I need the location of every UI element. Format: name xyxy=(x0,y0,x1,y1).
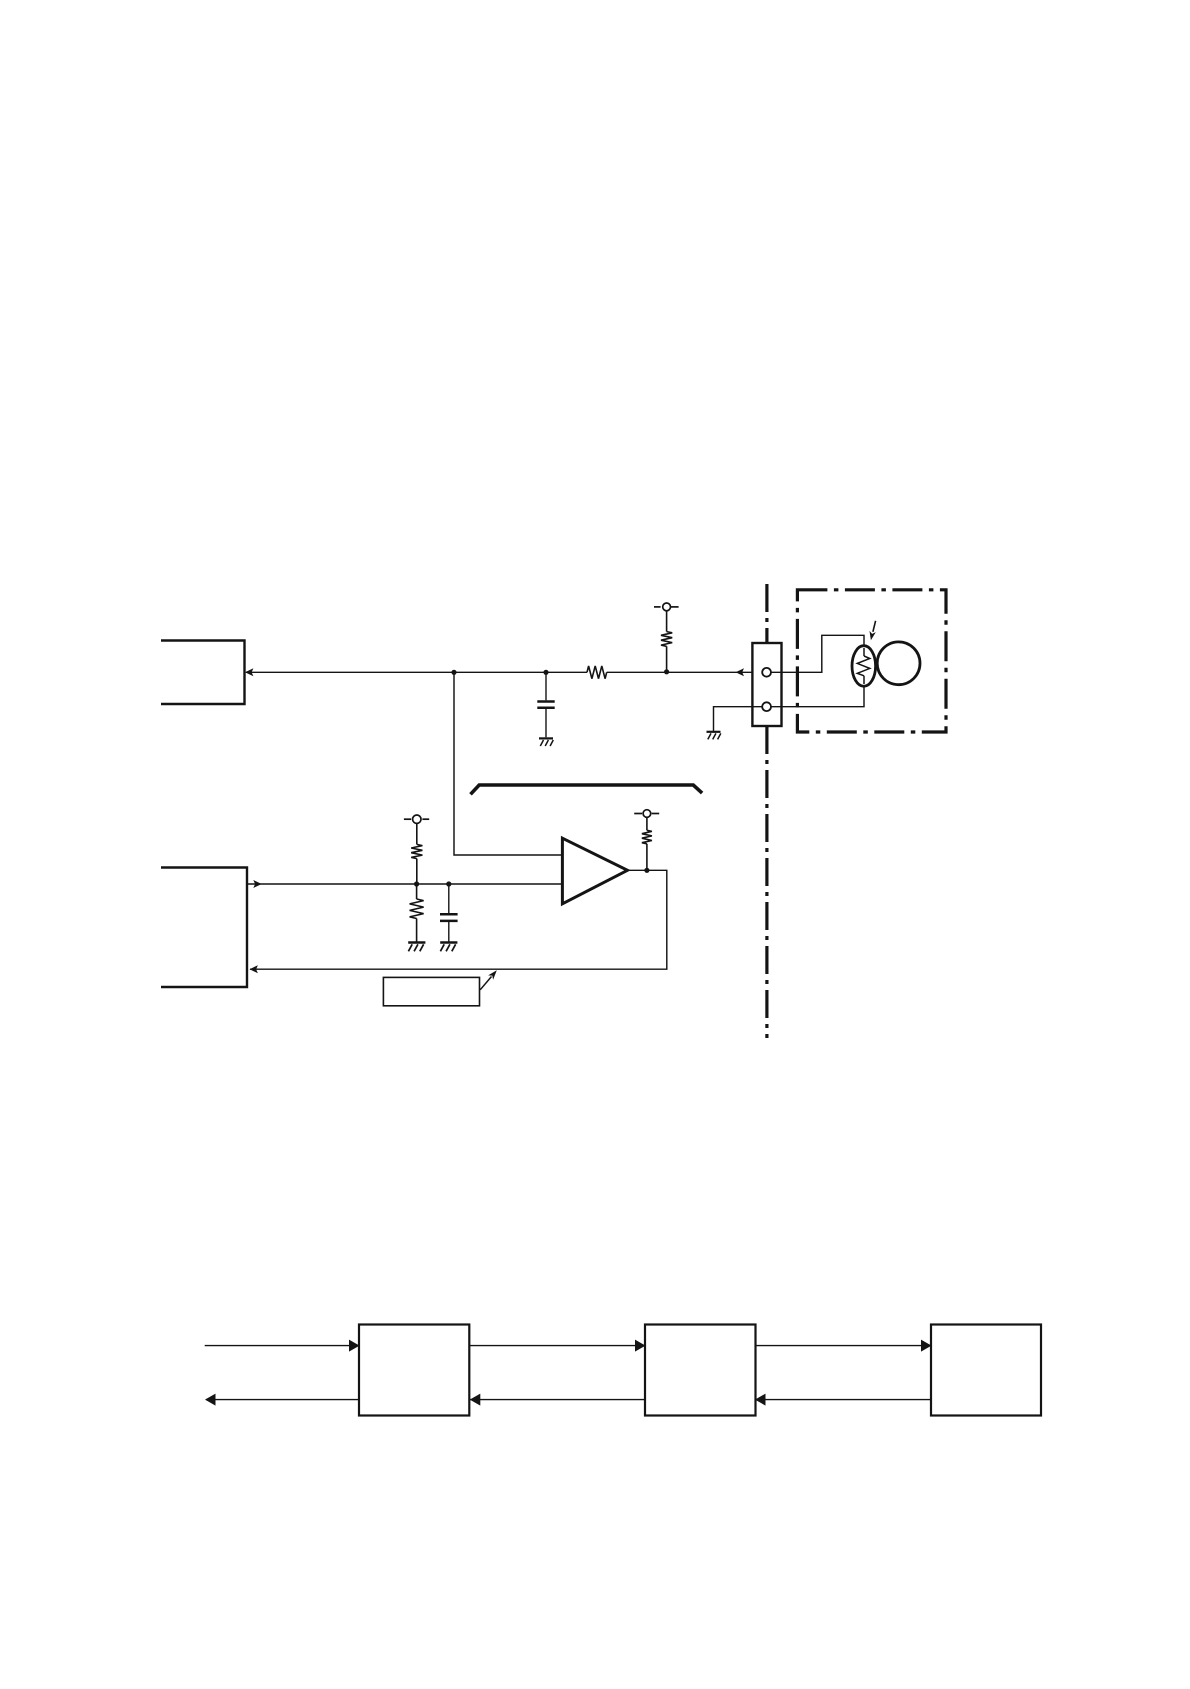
wire: node J1 to comparator input xyxy=(454,672,562,855)
wire: D2 to D3 xyxy=(756,1345,932,1347)
leader arrow to TH1 xyxy=(873,621,876,632)
ground G2 xyxy=(707,731,721,733)
wire: pin2 to ground xyxy=(714,707,763,731)
wire: B2 output to comparator xyxy=(247,883,562,885)
label bracket over comparator xyxy=(471,785,703,794)
arrowhead into B2 (feedback) xyxy=(250,965,258,973)
heater lamp H1 xyxy=(877,642,920,685)
resistor R1 (pull-up) xyxy=(661,611,672,673)
node J3 xyxy=(664,669,669,674)
node J2 xyxy=(543,670,548,675)
node J1 xyxy=(451,670,456,675)
capacitor C1 xyxy=(545,672,547,737)
pin 1 xyxy=(762,668,771,677)
resistor R3 (to +V) xyxy=(411,823,422,884)
ground G3 xyxy=(408,941,425,943)
thermistor TH1 element xyxy=(857,648,870,684)
wire: D1 to D2 xyxy=(469,1345,645,1347)
block B2 (control IC, open left) xyxy=(161,868,247,988)
wire: comparator output / feedback xyxy=(250,870,667,969)
label box L1 xyxy=(383,977,479,1005)
wire: D2 back to D1 xyxy=(470,1399,645,1401)
node J5 xyxy=(446,881,451,886)
connector CN1 xyxy=(752,643,781,726)
block D1 xyxy=(359,1325,469,1416)
terminal T2 (+V) xyxy=(404,815,429,823)
node J6 xyxy=(644,868,649,873)
frame boundary chain line (unit partition) xyxy=(765,584,768,1038)
ground G4 xyxy=(440,941,457,943)
pin 2 xyxy=(762,702,771,711)
block B1 (control PWB, open left) xyxy=(161,641,245,705)
wire: line in to D1 xyxy=(205,1345,359,1347)
terminal T1 (+V) xyxy=(654,603,679,611)
wire: D3 back to D2 xyxy=(757,1399,932,1401)
resistor R4 (to ground) xyxy=(410,884,424,942)
block D2 xyxy=(645,1325,756,1416)
capacitor C2 xyxy=(448,884,450,942)
arrowhead at connector CN1 xyxy=(736,668,744,676)
ground G1 xyxy=(539,737,553,739)
arrowhead into B1 xyxy=(245,668,253,676)
fusing unit enclosure (chain rect) xyxy=(797,590,946,732)
block D3 xyxy=(931,1325,1041,1416)
terminal T3 (+V) xyxy=(634,810,659,818)
wire: D1 line out xyxy=(206,1399,359,1401)
node J4 xyxy=(414,881,419,886)
arrowhead out of B2 xyxy=(253,880,261,888)
thermistor TH1 body xyxy=(852,646,876,687)
wire: pin1 to thermistor xyxy=(771,635,865,672)
resistor R2 (series) xyxy=(587,666,607,679)
leader arrow from L1 to feedback wire xyxy=(480,977,491,990)
wire: thermistor to pin2 xyxy=(771,678,865,707)
wire: thermistor sense line xyxy=(246,671,763,673)
comparator U1 xyxy=(562,838,627,904)
resistor R5 (output pull-up) xyxy=(642,817,652,870)
